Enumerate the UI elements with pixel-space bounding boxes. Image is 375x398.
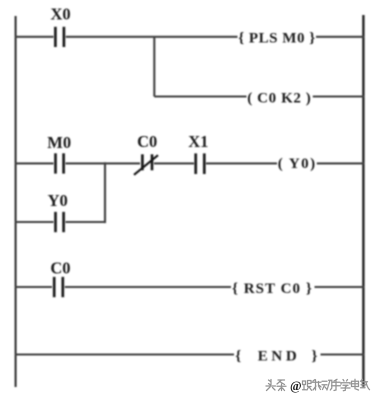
svg-text:}: }: [312, 348, 318, 364]
watermark toutiao: [266, 379, 370, 390]
wire rung2 mid3: [206, 162, 277, 164]
svg-text:C0: C0: [137, 132, 157, 151]
wire branch1 horizontal: [154, 95, 246, 97]
wire branch1 right: [313, 95, 364, 97]
svg-text:@: @: [290, 379, 302, 393]
wire rung4 right: [321, 353, 365, 355]
wire rung3 left: [15, 286, 52, 288]
wire branch1 vertical: [153, 37, 155, 97]
wire branch Y0 right: [66, 221, 107, 223]
svg-text:C0: C0: [50, 259, 70, 278]
wire rung2 mid2: [154, 162, 194, 164]
svg-text:END: END: [258, 348, 297, 364]
wire rung2 left: [15, 162, 54, 164]
svg-text:( C0 K2 ): ( C0 K2 ): [247, 90, 311, 106]
svg-text:{: {: [235, 348, 241, 364]
svg-text:( Y0): ( Y0): [278, 156, 315, 172]
wire rung3 right: [315, 286, 365, 288]
contact C0 rung3: [54, 277, 63, 297]
contact X1: [196, 153, 205, 174]
wire rung2 right: [317, 162, 364, 164]
svg-text:{ RST C0 }: { RST C0 }: [232, 281, 312, 297]
wire branch Y0 left: [15, 221, 54, 223]
contact M0: [56, 153, 64, 173]
wire rung3 middle: [65, 286, 231, 288]
contact Y0: [56, 212, 64, 232]
svg-text:M0: M0: [47, 133, 71, 152]
svg-text:Y0: Y0: [48, 191, 68, 210]
svg-text:X1: X1: [188, 132, 208, 151]
wire rung1 middle: [66, 36, 238, 38]
wire rung4 left: [15, 353, 234, 355]
contact C0 normally-closed: [134, 154, 158, 175]
svg-text:X0: X0: [51, 5, 71, 24]
contact X0: [55, 27, 64, 47]
wire branch Y0 vertical: [104, 162, 106, 223]
wire rung1 left: [15, 36, 54, 38]
wire rung2 mid1: [66, 162, 141, 164]
wire rung1 right: [316, 36, 364, 38]
right power rail: [362, 15, 365, 387]
svg-text:{ PLS M0 }: { PLS M0 }: [238, 31, 315, 47]
left power rail: [15, 16, 17, 387]
